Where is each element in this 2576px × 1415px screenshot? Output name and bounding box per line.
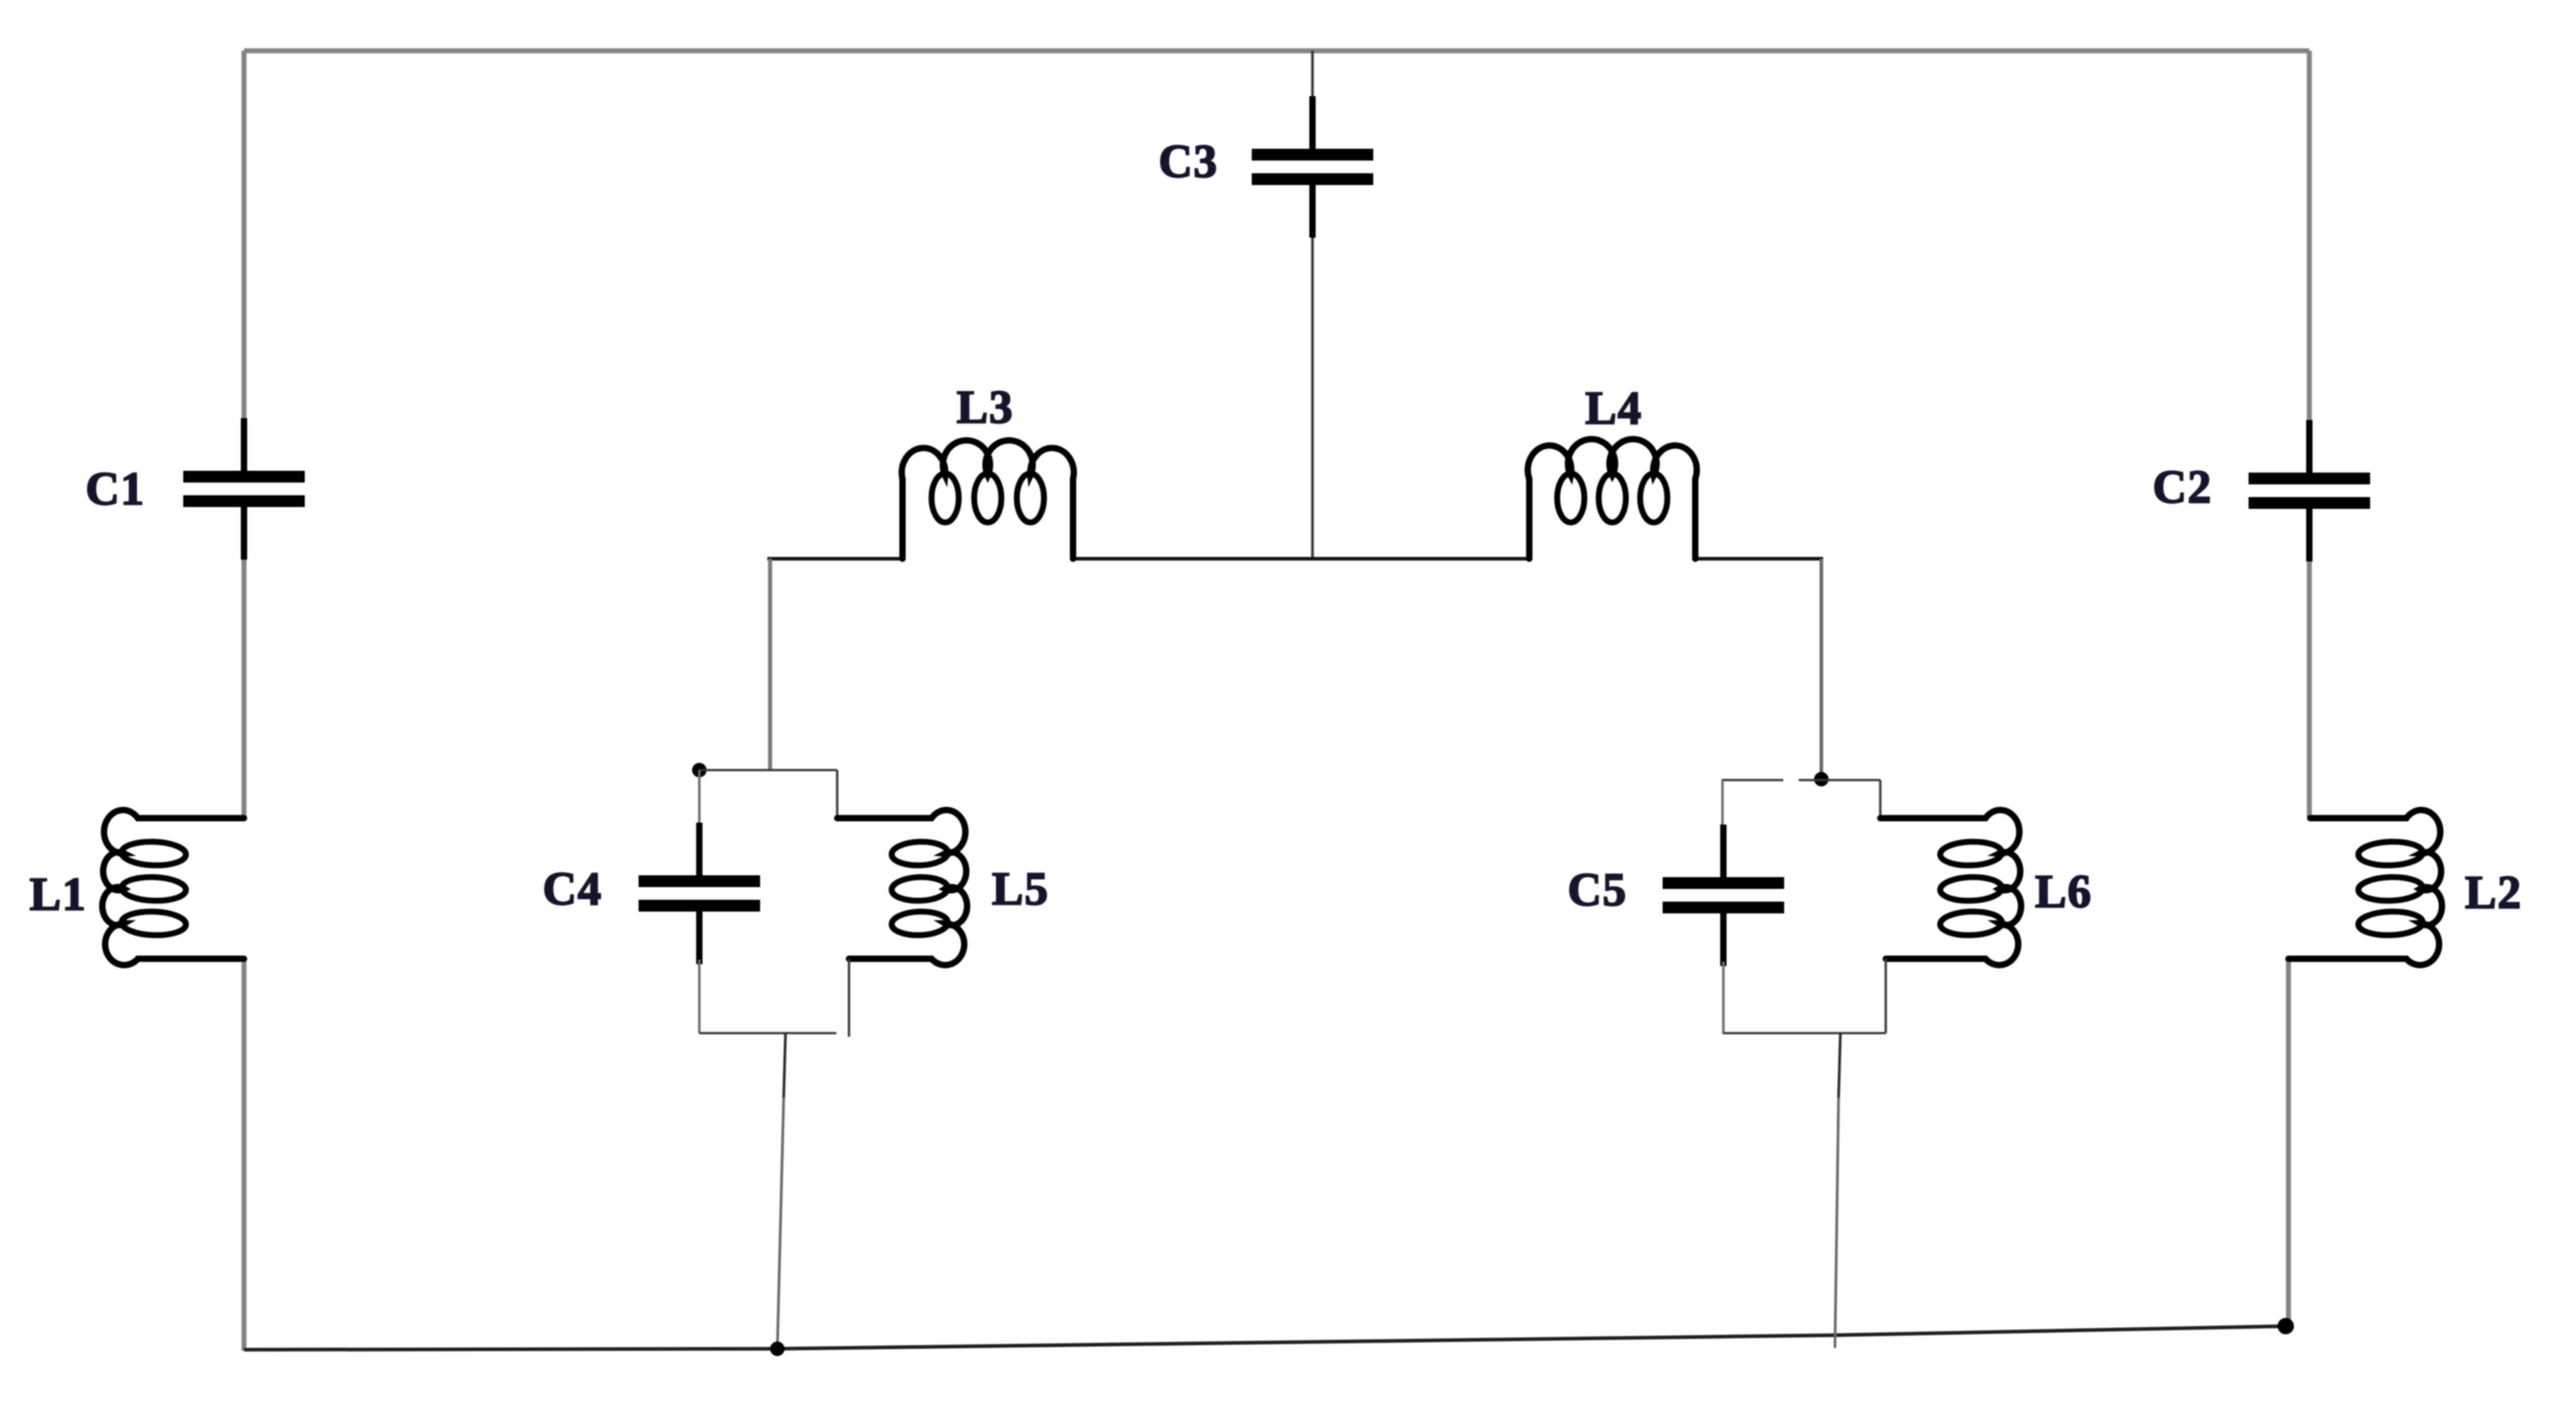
svg-text:L1: L1 (30, 869, 87, 921)
wire: C4 lower stem (698, 960, 701, 1033)
node: junction dot C5 tank (1814, 772, 1829, 786)
label C1 (85, 464, 145, 515)
svg-text:L2: L2 (2465, 867, 2522, 919)
inductor L2 (2288, 810, 2442, 965)
label L3 (957, 382, 1014, 434)
inductor L5 (837, 810, 967, 965)
svg-text:L6: L6 (2035, 866, 2093, 918)
inductor L6 (1880, 810, 2021, 965)
capacitor C5 (1663, 825, 1784, 966)
svg-text:C5: C5 (1567, 864, 1627, 916)
inductor L3 (902, 440, 1074, 559)
wire: right vertical lower (L2 to bottom bus) (2286, 959, 2291, 1327)
svg-text:C1: C1 (85, 464, 145, 515)
wire: right vertical middle (C2 to L2) (2307, 555, 2312, 818)
label L6 (2035, 866, 2093, 918)
label L1 (30, 869, 87, 921)
svg-text:L3: L3 (957, 382, 1014, 434)
wire: mid bus center segment (L3 to L4) (1073, 557, 1529, 561)
wire: left feed drop (mid bus to C4 tank) (768, 559, 773, 770)
wire: C4 tank top (699, 769, 837, 772)
wire: C5 upper stem (1722, 780, 1724, 825)
label C4 (542, 864, 602, 915)
wire: right vertical upper (top bus to C2) (2307, 51, 2312, 422)
wire: C5 tank top right (1799, 779, 1880, 782)
wire: C4 tank top-right corner drop (836, 770, 839, 819)
wire: C5 tank bottom (1723, 1032, 1886, 1035)
capacitor C4 (639, 823, 760, 964)
capacitor C3 (1252, 96, 1373, 238)
wire: mid bus right segment (1695, 557, 1823, 561)
inductor L4 (1527, 439, 1696, 559)
wire: left vertical lower (L1 to bottom bus) (241, 959, 247, 1351)
wire: left vertical middle (C1 to L1) (241, 552, 247, 819)
label L2 (2465, 867, 2522, 919)
wire: top bus (244, 48, 2309, 54)
wire: C5 tank top-right corner drop (1879, 780, 1882, 819)
wire: C3 stem upper (1312, 51, 1314, 98)
wire: C4 tank bottom (699, 1032, 836, 1035)
wire: left vertical upper (top bus to C1) (241, 51, 247, 421)
inductor L1 (102, 810, 244, 965)
label L4 (1586, 383, 1643, 434)
svg-text:L4: L4 (1586, 383, 1643, 434)
wire: L6 bottom stub (1885, 959, 1888, 1033)
node: junction dot bottom left (770, 1342, 785, 1356)
wire: C4 tank drop to bottom bus (777, 1033, 785, 1349)
svg-text:C2: C2 (2152, 462, 2212, 513)
label C5 (1567, 864, 1627, 916)
svg-text:C4: C4 (542, 864, 602, 915)
label C2 (2152, 462, 2212, 513)
wire: bottom bus (244, 1326, 2287, 1350)
capacitor C2 (2249, 420, 2370, 561)
wire: right feed drop (mid bus to C5 tank) (1820, 559, 1823, 778)
wire: C5 lower stem (1722, 961, 1725, 1034)
wire: C3 stem lower (C3 to mid bus) (1312, 236, 1314, 561)
label L5 (992, 864, 1049, 915)
svg-text:L5: L5 (992, 864, 1049, 915)
capacitor C1 (183, 418, 305, 560)
node: junction dot bottom right (2278, 1318, 2294, 1334)
wire: mid bus left segment (767, 557, 903, 561)
wire: C4 upper stem (698, 770, 701, 824)
node: junction dot C4 tank (692, 763, 707, 777)
wire: C5 tank top left (1722, 779, 1783, 782)
svg-text:C3: C3 (1158, 136, 1218, 188)
label C3 (1158, 136, 1218, 188)
wire: C5 tank drop to bottom bus (1835, 1033, 1840, 1348)
wire: L5 bottom stub (848, 959, 851, 1037)
